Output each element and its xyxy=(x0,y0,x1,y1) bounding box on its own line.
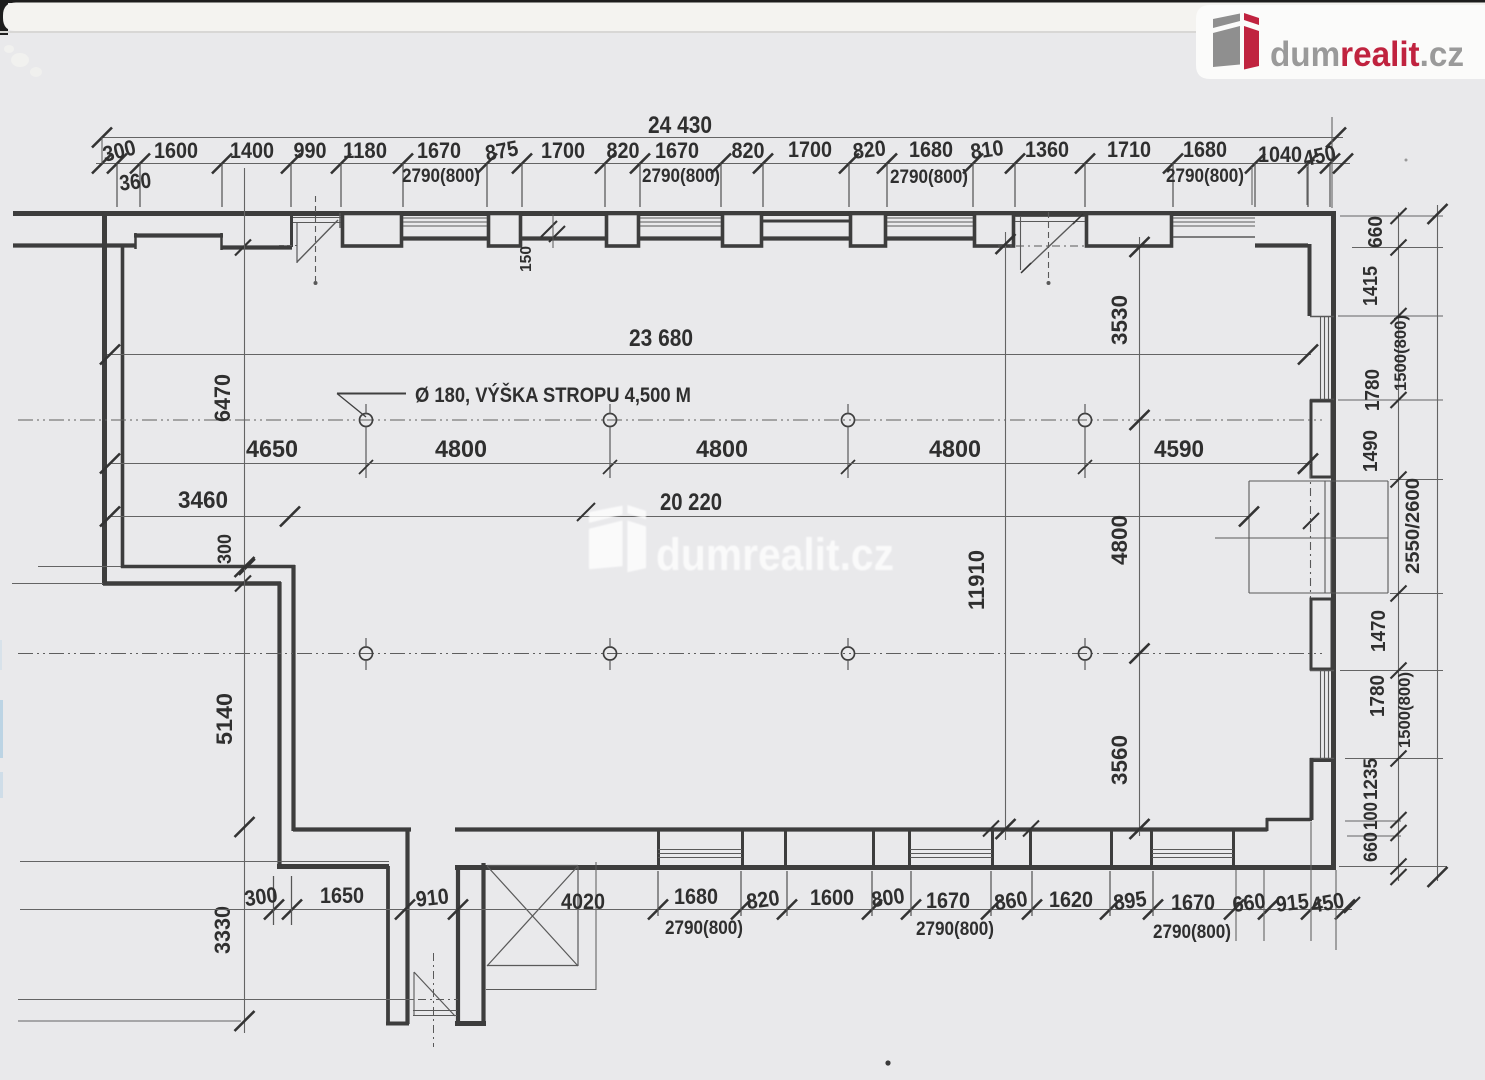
left step extension lines xyxy=(38,566,121,568)
svg-text:dumrealit.cz: dumrealit.cz xyxy=(656,529,894,580)
paper damage spots top-left xyxy=(11,53,29,67)
svg-text:11910: 11910 xyxy=(964,550,989,610)
svg-text:360: 360 xyxy=(118,167,152,195)
columns row 2 xyxy=(360,647,373,660)
svg-text:910: 910 xyxy=(414,883,449,911)
svg-text:1500(800): 1500(800) xyxy=(1391,315,1410,391)
svg-text:2790(800): 2790(800) xyxy=(1153,922,1231,943)
right dim connectors xyxy=(1340,215,1443,217)
svg-text:3530: 3530 xyxy=(1107,295,1132,345)
svg-text:1500(800): 1500(800) xyxy=(1395,672,1414,748)
band lower edge xyxy=(0,31,1485,33)
svg-text:3460: 3460 xyxy=(178,487,228,514)
svg-text:1400: 1400 xyxy=(230,138,274,163)
shaft box with X xyxy=(487,865,578,867)
svg-text:660: 660 xyxy=(1361,832,1382,862)
svg-text:2550/2600: 2550/2600 xyxy=(1403,478,1424,574)
svg-text:1360: 1360 xyxy=(1025,137,1069,162)
svg-text:1620: 1620 xyxy=(1049,887,1093,912)
svg-text:4800: 4800 xyxy=(435,436,487,463)
svg-text:4020: 4020 xyxy=(561,889,605,914)
top wall windows glazing xyxy=(403,217,487,219)
svg-text:660: 660 xyxy=(1365,216,1387,248)
right wall bottom solid xyxy=(1310,758,1314,820)
svg-text:2790(800): 2790(800) xyxy=(1166,166,1244,187)
window top-right 1680 xyxy=(1173,217,1255,219)
corridor walls xyxy=(386,866,390,1024)
svg-text:1600: 1600 xyxy=(810,885,854,910)
svg-text:915: 915 xyxy=(1274,888,1309,916)
svg-text:1780: 1780 xyxy=(1367,675,1389,717)
svg-text:6470: 6470 xyxy=(210,374,235,422)
door D2 top-right xyxy=(1015,216,1085,218)
svg-text:1235: 1235 xyxy=(1361,758,1382,800)
svg-text:810: 810 xyxy=(969,135,1005,164)
svg-text:2790(800): 2790(800) xyxy=(890,167,968,188)
svg-text:2790(800): 2790(800) xyxy=(916,919,994,940)
vertical dim 3530/4800/3560 xyxy=(1139,237,1141,836)
svg-text:4800: 4800 xyxy=(696,436,748,463)
svg-text:4650: 4650 xyxy=(246,436,298,463)
svg-text:1040: 1040 xyxy=(1258,142,1302,167)
scan specks xyxy=(885,1060,890,1065)
svg-text:4590: 4590 xyxy=(1154,436,1204,463)
svg-text:23 680: 23 680 xyxy=(629,325,693,352)
bottom wall piers xyxy=(741,831,744,866)
centre line lower columns xyxy=(18,653,1322,655)
right outer dim line xyxy=(1437,205,1439,881)
wall: bottom inner face xyxy=(293,827,411,831)
svg-text:1670: 1670 xyxy=(1171,890,1215,915)
svg-text:1470: 1470 xyxy=(1368,610,1390,652)
svg-text:1680: 1680 xyxy=(674,884,718,909)
dimension line 23680 xyxy=(107,354,1311,356)
svg-text:1650: 1650 xyxy=(320,883,364,908)
watermark dumrealit.cz xyxy=(589,505,894,580)
bottom dimension chain line xyxy=(20,909,1352,911)
vertical dim 11910 xyxy=(1005,232,1007,840)
svg-text:1680: 1680 xyxy=(909,137,953,162)
svg-text:1415: 1415 xyxy=(1360,266,1382,306)
svg-text:1490: 1490 xyxy=(1360,430,1382,472)
wall: left inner face xyxy=(121,245,125,568)
column callout xyxy=(337,394,366,418)
svg-text:1700: 1700 xyxy=(541,138,585,163)
right inner dim line xyxy=(1398,212,1400,881)
wall: left outer face xyxy=(102,213,107,585)
svg-text:100: 100 xyxy=(1361,802,1382,830)
right bay opening 2550/2600 xyxy=(1249,480,1388,482)
dimension line 3460/20220 xyxy=(108,516,1249,518)
svg-text:1710: 1710 xyxy=(1107,137,1151,162)
dimension line 4650/4800 xyxy=(110,463,1311,465)
wire overall dimension line 24430 xyxy=(102,137,1343,139)
svg-text:300: 300 xyxy=(215,534,236,564)
right wall window W5 xyxy=(1320,316,1322,400)
scanner dark corner left xyxy=(0,0,8,35)
svg-text:895: 895 xyxy=(1112,886,1148,915)
top-right corner walls xyxy=(1255,243,1308,247)
svg-text:990: 990 xyxy=(294,138,327,163)
bottom extension ticks xyxy=(657,871,659,916)
centre line upper columns xyxy=(18,419,1322,421)
right wall pier 2 xyxy=(1311,599,1332,669)
svg-text:1780: 1780 xyxy=(1362,369,1384,411)
logo box top right xyxy=(1196,5,1485,79)
svg-text:1700: 1700 xyxy=(788,137,832,162)
svg-text:820: 820 xyxy=(745,885,781,914)
svg-text:1670: 1670 xyxy=(417,138,461,163)
svg-text:3560: 3560 xyxy=(1107,735,1132,785)
svg-text:2790(800): 2790(800) xyxy=(665,918,743,939)
svg-text:Ø 180, VÝŠKA STROPU 4,500 M: Ø 180, VÝŠKA STROPU 4,500 M xyxy=(415,383,691,407)
wire top dimension chain line xyxy=(96,163,1350,165)
wall: top exterior outer face xyxy=(13,211,1336,216)
wall: top-left inner face segments xyxy=(13,243,136,247)
svg-text:dumrealit.cz: dumrealit.cz xyxy=(1270,35,1464,74)
corridor door / stairs xyxy=(413,972,415,1016)
left edge blue marks xyxy=(0,700,3,758)
columns row 1 xyxy=(360,414,373,427)
left aux horizontal lines xyxy=(20,861,389,863)
door D1 top-left xyxy=(291,217,341,219)
svg-text:4800: 4800 xyxy=(1107,515,1132,565)
left vertical dimension line xyxy=(244,168,246,1033)
right wall pier xyxy=(1311,401,1332,477)
svg-text:800: 800 xyxy=(870,883,906,912)
svg-text:820: 820 xyxy=(732,138,765,163)
logo cube icon xyxy=(1213,14,1240,29)
svg-text:2790(800): 2790(800) xyxy=(402,166,480,187)
svg-text:24 430: 24 430 xyxy=(648,112,712,139)
svg-text:1180: 1180 xyxy=(343,138,387,163)
svg-text:860: 860 xyxy=(993,886,1029,915)
svg-text:1600: 1600 xyxy=(154,138,198,163)
bottom wall window jambs xyxy=(657,831,660,866)
wall: bottom outer face xyxy=(277,864,389,869)
svg-text:4800: 4800 xyxy=(929,436,981,463)
extension ticks below top dimension line xyxy=(116,164,118,208)
svg-text:300: 300 xyxy=(243,882,279,911)
thin wall segments top xyxy=(522,236,605,240)
right wall window W6 xyxy=(1320,671,1322,758)
svg-text:820: 820 xyxy=(851,135,886,163)
svg-text:1670: 1670 xyxy=(926,888,970,913)
svg-text:1670: 1670 xyxy=(655,138,699,163)
svg-text:5140: 5140 xyxy=(212,693,237,745)
step walls left xyxy=(121,565,295,569)
svg-text:820: 820 xyxy=(607,138,640,163)
scanner dark edge top xyxy=(0,0,1485,3)
wall: right exterior outer face xyxy=(1331,211,1336,868)
svg-text:3330: 3330 xyxy=(210,906,235,954)
top wall piers xyxy=(343,214,402,247)
svg-text:1680: 1680 xyxy=(1183,137,1227,162)
svg-text:150: 150 xyxy=(518,246,535,272)
svg-text:2790(800): 2790(800) xyxy=(642,166,720,187)
svg-text:660: 660 xyxy=(1231,888,1267,917)
svg-text:20 220: 20 220 xyxy=(660,489,722,516)
white top band xyxy=(3,3,1485,32)
bottom windows glazing xyxy=(658,849,742,851)
